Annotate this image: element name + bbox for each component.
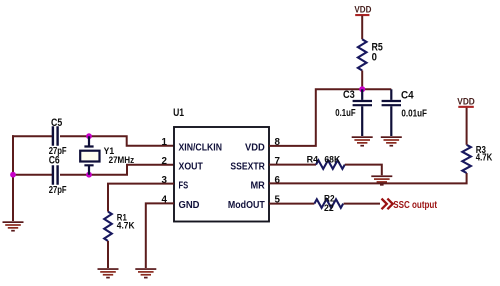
resistor R3 bbox=[462, 145, 493, 173]
crystal Y1 bbox=[80, 136, 134, 175]
ground: under R1 bbox=[98, 268, 119, 278]
capacitor C4 bbox=[382, 89, 427, 136]
wire: FS net from U1 pin 3 to R1 bbox=[108, 184, 174, 212]
node: junction left rail / C6 bbox=[10, 172, 16, 178]
resistor R5 bbox=[358, 39, 383, 70]
wire: R1 to ground bbox=[107, 241, 109, 268]
node: junction XOUT / crystal bottom bbox=[86, 172, 92, 178]
svg-text:0: 0 bbox=[372, 52, 377, 64]
svg-text:2: 2 bbox=[162, 156, 168, 167]
ground: under C3 bbox=[352, 136, 373, 146]
ground: under U1 pin 4 bbox=[135, 268, 156, 278]
svg-text:SSEXTR: SSEXTR bbox=[230, 162, 265, 173]
svg-text:R4: R4 bbox=[307, 155, 319, 165]
svg-text:0.1uF: 0.1uF bbox=[335, 108, 355, 119]
svg-text:4.7K: 4.7K bbox=[476, 153, 493, 164]
svg-text:XOUT: XOUT bbox=[179, 162, 204, 173]
svg-text:U1: U1 bbox=[173, 107, 184, 119]
resistor R4 bbox=[307, 155, 345, 169]
svg-text:MR: MR bbox=[251, 180, 266, 191]
wire: XIN net from C5 to U1 pin 1 bbox=[60, 136, 174, 146]
svg-text:ModOUT: ModOUT bbox=[228, 200, 265, 211]
svg-text:VDD: VDD bbox=[245, 143, 265, 154]
svg-text:27MHz: 27MHz bbox=[109, 155, 135, 165]
svg-text:0.01uF: 0.01uF bbox=[401, 108, 427, 119]
svg-text:VDD: VDD bbox=[457, 96, 475, 106]
wire: ModOUT net from U1 pin 5 to R2 bbox=[269, 203, 314, 205]
wire: R2 to SSC output port bbox=[344, 203, 380, 205]
wire: R5 to VDD node bbox=[361, 71, 363, 90]
wire: R3 to VDD bar bbox=[466, 107, 468, 145]
capacitor C6 bbox=[49, 154, 67, 196]
port: SSC output chevrons bbox=[382, 199, 393, 210]
svg-text:4.7K: 4.7K bbox=[117, 221, 135, 231]
svg-text:VDD: VDD bbox=[354, 5, 371, 15]
node: junction VDD/R5/C3 bbox=[359, 86, 365, 92]
wire: GND net from U1 pin 4 bbox=[146, 203, 174, 268]
power symbol VDD (top) bbox=[354, 5, 371, 40]
svg-text:GND: GND bbox=[179, 200, 200, 211]
svg-text:68K: 68K bbox=[324, 155, 340, 165]
wire: XOUT net, C6 left segment bbox=[12, 174, 52, 176]
wire: XIN net, C5 left segment bbox=[12, 135, 52, 137]
resistor R2 bbox=[314, 193, 343, 214]
svg-text:C4: C4 bbox=[401, 90, 414, 102]
ground: under R4 bbox=[371, 175, 392, 185]
capacitor C3 bbox=[335, 89, 372, 136]
node: junction XIN / crystal top bbox=[86, 133, 92, 139]
svg-text:C5: C5 bbox=[51, 117, 62, 129]
ground: left rail ground bbox=[3, 221, 24, 231]
svg-text:22: 22 bbox=[324, 203, 334, 214]
wire: XOUT net from C6 to U1 pin 2 bbox=[60, 165, 174, 175]
svg-text:27pF: 27pF bbox=[49, 185, 67, 196]
capacitor C5 bbox=[49, 117, 67, 157]
wire: R4 to ground bbox=[345, 165, 382, 176]
svg-text:C3: C3 bbox=[343, 89, 355, 101]
chip U1 bbox=[173, 107, 269, 222]
resistor R1 bbox=[104, 212, 135, 241]
wire: left vertical rail bbox=[12, 135, 14, 221]
svg-text:XIN/CLKIN: XIN/CLKIN bbox=[179, 143, 223, 154]
svg-text:1: 1 bbox=[162, 137, 168, 148]
wire: MR net from U1 pin 6 to R3 bbox=[269, 173, 467, 183]
power symbol VDD (right) bbox=[457, 96, 475, 108]
ground: under C4 bbox=[381, 136, 402, 146]
svg-text:FS: FS bbox=[179, 180, 189, 191]
wire: VDD node horizontal and drop to U1 pin 8 bbox=[269, 89, 391, 146]
svg-text:C6: C6 bbox=[49, 154, 60, 166]
svg-text:SSC output: SSC output bbox=[393, 200, 437, 211]
wire: SSEXTR net from U1 pin 7 to R4 bbox=[269, 164, 316, 166]
